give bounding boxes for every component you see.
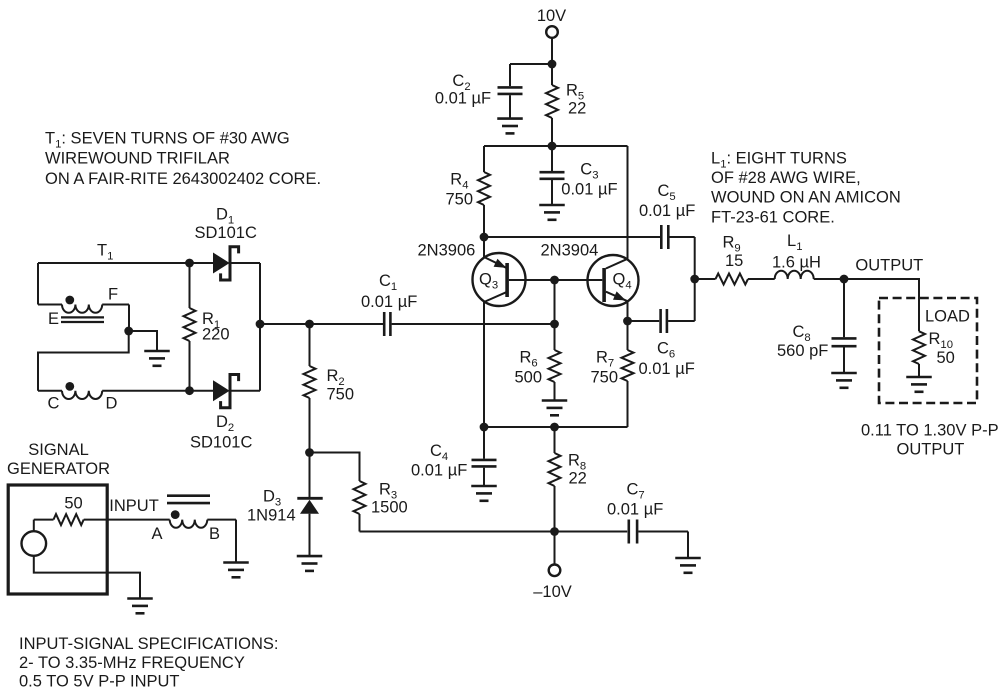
wire output to load [844, 279, 919, 331]
svg-text:A: A [151, 525, 162, 543]
capacitor C8 [777, 279, 857, 372]
diode D1 SD101C [190, 206, 261, 281]
ground C7 [675, 557, 701, 560]
svg-text:1500: 1500 [371, 499, 408, 517]
wire source resistor to winding A [84, 519, 170, 521]
svg-text:–10V: –10V [533, 583, 572, 601]
svg-text:560 pF: 560 pF [777, 342, 828, 360]
winding E-F of T1 [38, 286, 129, 332]
ground C2 [497, 117, 523, 120]
ground C8 [831, 372, 857, 375]
resistor R2 [304, 324, 355, 453]
svg-text:OUTPUT: OUTPUT [855, 257, 923, 275]
svg-text:E: E [48, 310, 59, 328]
resistor R5 [546, 64, 586, 146]
node diode output [256, 320, 265, 329]
capacitor C6 [628, 309, 695, 378]
core lines input winding [167, 496, 210, 503]
note input-signal specifications [19, 635, 278, 690]
svg-text:750: 750 [591, 368, 619, 386]
svg-text:750: 750 [327, 386, 355, 404]
node -10V junction [550, 527, 559, 536]
resistor R1 [184, 263, 230, 391]
ground R6 [542, 399, 568, 402]
capacitor C2 [435, 64, 523, 118]
svg-text:C: C [48, 395, 60, 413]
svg-text:0.01 µF: 0.01 µF [361, 293, 417, 311]
wire R2 node to R3 [310, 453, 360, 482]
svg-text:2N3906: 2N3906 [418, 242, 476, 260]
capacitor C4 [411, 427, 497, 485]
resistor R8 [549, 427, 587, 532]
phase dot winding E-F [65, 296, 74, 305]
winding C-D of T1 [38, 391, 190, 413]
svg-text:WOUND ON AN AMICON: WOUND ON AN AMICON [711, 189, 901, 207]
svg-text:L1​: EIGHT TURNS: L1​: EIGHT TURNS [711, 150, 847, 171]
wire bottom rail [484, 426, 628, 428]
svg-text:0.01 µF: 0.01 µF [607, 501, 663, 519]
source circle [22, 531, 47, 556]
svg-text:0.01 µF: 0.01 µF [639, 202, 695, 220]
node R4 bottom (Q3 emitter node) [480, 233, 489, 242]
wire base node down to input node [554, 280, 556, 324]
wire source top [33, 520, 35, 532]
resistor R3 [354, 481, 408, 532]
wire negative rail [360, 531, 628, 533]
svg-text:0.11 TO 1.30V P-P: 0.11 TO 1.30V P-P [861, 422, 999, 440]
node R8 top [550, 423, 559, 432]
wire diode node to R2 node [260, 323, 310, 325]
diode D3 1N914 [247, 453, 323, 556]
node R5 bottom rail [548, 142, 557, 151]
ground winding B [223, 561, 249, 564]
svg-text:0.01 µF: 0.01 µF [639, 360, 695, 378]
node T1 center tap [124, 327, 133, 336]
svg-text:2- TO 3.35-MHz FREQUENCY: 2- TO 3.35-MHz FREQUENCY [19, 654, 245, 672]
svg-text:OUTPUT: OUTPUT [897, 441, 965, 459]
svg-text:220: 220 [202, 326, 230, 344]
ground R10 [906, 376, 932, 379]
transistor Q4 2N3904 [541, 242, 639, 307]
svg-text:2N3904: 2N3904 [541, 242, 599, 260]
wire Q4 collector feed [627, 146, 629, 259]
note L1 winding [711, 150, 901, 227]
svg-text:OF #28 AWG WIRE,: OF #28 AWG WIRE, [711, 169, 861, 187]
svg-text:22: 22 [569, 470, 587, 488]
svg-text:ON A FAIR-RITE 2643002402 CORE: ON A FAIR-RITE 2643002402 CORE. [45, 170, 321, 188]
svg-text:0.5 TO 5V P-P INPUT: 0.5 TO 5V P-P INPUT [19, 672, 179, 690]
phase dot winding C-D [65, 382, 74, 391]
svg-text:750: 750 [445, 191, 473, 209]
inductor L1 [772, 232, 844, 279]
wire top rail [484, 145, 628, 147]
phase dot winding A [171, 510, 180, 519]
svg-text:INPUT: INPUT [109, 497, 159, 515]
resistor 50 (source impedance) [54, 495, 84, 526]
terminal 10V [537, 7, 566, 38]
svg-text:D: D [106, 395, 118, 413]
svg-text:SD101C: SD101C [190, 434, 252, 452]
node R2 top [305, 320, 314, 329]
wire Q3 collector down to bottom rail [483, 302, 485, 427]
wire source bottom [34, 556, 140, 598]
wire T1 left top vertical [37, 263, 39, 305]
capacitor C3 [540, 146, 618, 205]
svg-text:50: 50 [64, 495, 82, 513]
wire center tap down-left [38, 331, 129, 391]
wire base link Q3-Q4 [509, 279, 602, 281]
core lines T1 [61, 317, 104, 322]
svg-text:50: 50 [937, 349, 955, 367]
capacitor C7 [607, 481, 688, 544]
svg-text:INPUT-SIGNAL SPECIFICATIONS:: INPUT-SIGNAL SPECIFICATIONS: [19, 635, 278, 653]
node T1 bottom-right [185, 386, 194, 395]
ground signal generator [127, 597, 153, 600]
svg-text:SIGNAL: SIGNAL [28, 441, 89, 459]
capacitor C1 [310, 272, 555, 336]
label output level [861, 422, 999, 459]
svg-text:B: B [209, 525, 220, 543]
svg-text:SD101C: SD101C [195, 224, 257, 242]
terminal -10V [533, 532, 572, 602]
wire C7 to ground [687, 532, 689, 558]
resistor R10 (load) [913, 330, 955, 376]
node 10V junction [548, 60, 557, 69]
node C4 top [480, 423, 489, 432]
wire junction to C2 [510, 63, 552, 65]
svg-text:WIREWOUND TRIFILAR: WIREWOUND TRIFILAR [45, 150, 230, 168]
note T1 winding [45, 130, 321, 188]
node T1 top-right [185, 259, 194, 268]
node Q4 emitter / C6 [623, 317, 632, 326]
wire T1 top [38, 262, 190, 264]
node base divider junction [550, 276, 559, 285]
node OUTPUT [840, 275, 849, 284]
wire Q4 emitter to C6 node [627, 301, 629, 321]
svg-text:22: 22 [568, 100, 586, 118]
node output coupling junction [690, 275, 699, 284]
svg-text:1.6 µH: 1.6 µH [772, 254, 821, 272]
svg-text:500: 500 [515, 369, 543, 387]
resistor R6 [515, 324, 561, 400]
ground C3 [539, 204, 565, 207]
node R2 bottom [305, 448, 314, 457]
wire C5 to C6 vertical [694, 237, 696, 321]
wire emitter node to C5 [484, 236, 660, 238]
ground center tap [144, 350, 170, 353]
svg-text:1N914: 1N914 [247, 507, 296, 525]
resistor R9 [695, 234, 775, 285]
load box (dashed) [879, 298, 977, 403]
ground C4 [471, 485, 497, 488]
svg-text:15: 15 [725, 252, 743, 270]
svg-text:GENERATOR: GENERATOR [7, 460, 110, 478]
ground D3 [297, 555, 323, 558]
diode D2 SD101C [190, 375, 261, 452]
svg-text:LOAD: LOAD [925, 308, 970, 326]
svg-text:FT-23-61 CORE.: FT-23-61 CORE. [711, 209, 835, 227]
svg-text:0.01 µF: 0.01 µF [411, 461, 467, 479]
svg-text:F: F [108, 286, 118, 304]
wire winding B to ground [235, 520, 237, 562]
winding A-B of T1 (input) [151, 520, 236, 543]
wire diode cathodes vertical [259, 263, 261, 391]
transistor Q3 2N3906 [418, 237, 526, 306]
resistor R7 [591, 321, 634, 427]
svg-text:T1​: SEVEN TURNS OF #30 AWG: T1​: SEVEN TURNS OF #30 AWG [45, 130, 290, 151]
node input junction [550, 320, 559, 329]
wire center tap to ground [129, 331, 157, 350]
svg-text:0.01 µF: 0.01 µF [561, 181, 617, 199]
wire 10V terminal to junction [551, 38, 553, 64]
signal generator box [7, 441, 110, 594]
capacitor C5 [639, 182, 695, 249]
svg-text:0.01 µF: 0.01 µF [435, 90, 491, 108]
resistor R4 [445, 146, 490, 237]
svg-text:10V: 10V [537, 7, 566, 25]
